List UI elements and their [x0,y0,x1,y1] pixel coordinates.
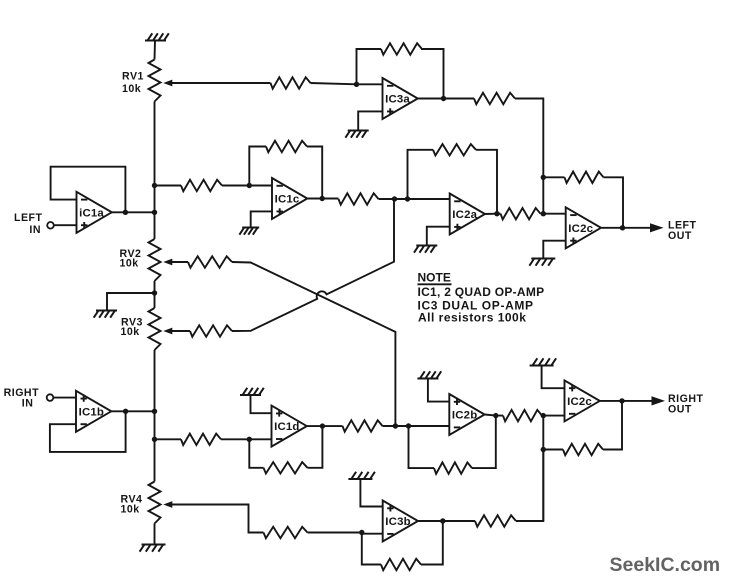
node left rail to IC1d resistor [152,437,157,442]
svg-text:iC1a: iC1a [79,207,104,219]
svg-text:10k: 10k [121,326,140,338]
arrow LEFT OUT [650,223,664,232]
resistor RV3 wiper crossfeed [190,325,232,336]
resistor IC2c-right feedback [563,444,603,455]
resistor IC3b feedback [381,559,421,570]
wire IC1d feedback left+bottom [249,439,263,468]
node IC3b inverting input [359,530,364,535]
resistor RV4 wiper to IC3b [264,527,308,538]
node IC2b output [493,413,498,418]
svg-text:10k: 10k [120,258,139,270]
node IC1a output on rail [152,210,157,215]
label RV1 [122,71,144,83]
wire IC2c-right feedback down [542,416,544,521]
wire IC1c output [308,198,339,200]
wire IC1c - node to input [249,185,272,187]
node IC3a output [441,96,446,101]
wire resistor down right rail to IC2c - node [515,99,543,214]
op-amp IC1c [272,178,307,219]
node IC1d inverting input [247,437,252,442]
label RIGHT IN line1 [4,387,39,399]
wire resistor to IC2c-right - node [542,415,565,417]
potentiometer RV3 10k [149,308,161,350]
wire mid-rail to ground G5 [107,293,155,311]
svg-text:IC1b: IC1b [79,406,104,418]
node IC1c output [320,196,325,201]
node mid-rail ground junction [152,290,157,295]
terminal LEFT IN [47,222,54,229]
svg-text:IC1c: IC1c [275,194,300,206]
note line 2 [418,298,534,312]
wire RV1 bottom rail down to RV2 [154,102,156,240]
svg-text:IC3a: IC3a [385,94,410,106]
node LEFT OUT feedback junction [620,225,625,230]
node IC1d output [320,423,325,428]
wire IC3b feedback left+bottom [362,533,381,565]
label LEFT OUT line1 [668,220,697,232]
wire IC1c feedback left+top [249,147,266,186]
wire IC3a feedback left+top [357,49,382,84]
ground G4 (IC1c + input) [239,228,259,235]
resistor IC2b feedback [434,462,472,473]
op-amp IC2c (left) [566,207,601,248]
resistor IC2c-left feedback [565,172,604,183]
label LEFT OUT line2 [668,230,692,242]
svg-text:RV1: RV1 [122,71,144,83]
op-amp IC2b [449,394,484,435]
svg-text:LEFT: LEFT [14,212,43,224]
wire rail resistor to IC1c - node [155,185,250,187]
wire IC1b output to rail [111,410,154,412]
wire IC2c-right + input to ground [542,366,565,389]
ground G10 (IC2c-right + input) [530,358,557,365]
ground G5 (between RV2 and RV3) [94,311,117,318]
label LEFT IN line2 [29,224,41,236]
wire IC1c + input to ground [251,211,272,227]
ground G1 (top of RV1) [145,33,169,40]
wire RV4 wiper to IC3b - resistor [171,505,264,533]
svg-text:IC2b: IC2b [452,410,477,422]
terminal RIGHT IN [47,394,54,401]
svg-text:NOTE: NOTE [418,271,451,285]
wire IC2a output to resistor [485,213,501,215]
wire IC2b output to resistor [485,415,503,416]
wire IC1a output to rail [112,211,155,213]
arrow RIGHT OUT [652,396,666,405]
note line 3 [418,310,526,324]
label RV3 [121,317,143,329]
wire IC3b - node to input [362,533,383,534]
potentiometer RV4 10k [149,482,161,524]
node crossfeed joins IC2b input [393,423,398,428]
note title [418,271,451,285]
resistor IC3a output to IC2c input rail [474,93,515,104]
svg-text:IC1, 2 QUAD OP-AMP: IC1, 2 QUAD OP-AMP [418,285,545,299]
op-amp IC3b [383,501,418,542]
wire RIGHT IN to IC1b + input [53,397,76,399]
node IC2a feedback junction [405,196,410,201]
wire IC2b + input to ground [428,379,449,402]
node IC1c inverting input [247,183,252,188]
label RIGHT OUT line1 [668,393,703,405]
node IC2b feedback junction [406,423,411,428]
node RIGHT OUT feedback junction [619,398,624,403]
resistor IC2a feedback [433,144,476,155]
node IC2a output [494,211,499,216]
label RIGHT IN line2 [22,397,34,409]
ground G3 (IC3a + input) [345,131,368,138]
svg-text:IN: IN [29,224,41,236]
resistor RV2 wiper crossfeed [188,256,232,267]
node left rail to IC1c resistor [152,183,157,188]
wire IC1a feedback loop [51,167,126,213]
svg-text:IC3b: IC3b [385,516,410,528]
wire resistor to IC3b - node [308,532,362,534]
wire resistor to IC2c - node [541,213,544,215]
wiper arrow RV3 [163,328,172,335]
wire resistor to IC3a - node [311,83,383,84]
potentiometer RV1 10k [149,60,161,102]
wire IC3b output to resistor [418,520,475,522]
wire IC1c feedback right side [307,147,322,199]
ground G9 (IC2b + input) [417,371,441,378]
op-amp IC2a [450,194,485,235]
wire RV3 bottom rail down to RV4 [154,350,156,482]
wire IC1d - node to input [249,438,271,440]
resistor IC1c feedback [266,141,307,152]
wire RV2 wiper to resistor [172,261,189,263]
wire crossfeed diagonal RV3 to IC2a rail (with hop) [232,199,394,331]
label RV2 value 10k [120,258,139,270]
wire feedback tap to resistor [543,176,564,178]
wire IC2a feedback left+top [408,150,434,199]
ground G2 (below RV4) [140,545,166,552]
wire IC2c-left output [601,227,650,229]
wire IC1d output [307,425,343,427]
wire IC3a output to resistor [418,98,474,100]
wire IC3a feedback right side [421,49,444,99]
wire crossfeed diagonal RV2 to IC2b rail [232,262,395,426]
svg-text:IN: IN [22,397,34,409]
ground G6 (IC2a + input) [414,246,437,253]
wire resistor up right rail to IC2c-right node [516,450,543,522]
label RV1 value 10k [122,83,141,95]
ground G11 (IC3b + input) [348,472,375,479]
wire IC2a feedback right side [476,150,497,214]
wire IC1b feedback loop [50,411,126,452]
resistor rail to IC1d inverting input [181,434,221,445]
wire RV1 wiper to resistor [171,82,271,84]
resistor IC1d feedback [264,462,308,473]
node IC3b output [440,518,445,523]
wiper arrow RV1 [163,80,172,87]
wire IC2c-right output [600,400,652,402]
potentiometer RV2 10k [149,239,161,281]
wire RV4 bottom to ground G2 [154,524,156,545]
label RV3 value 10k [121,326,140,338]
resistor IC2a output to IC2c [501,208,541,219]
wire IC2c-right feedback right side [603,401,622,450]
resistor IC3a feedback [381,43,422,54]
wire resistor to IC2a - input [379,198,450,200]
node IC1b output feedback junction [123,409,128,414]
node IC2c-right inverting input [541,413,546,418]
node IC3a inverting input [354,82,359,87]
wire IC3a + input to ground [358,111,382,130]
node IC2c-right feedback junction [541,447,546,452]
wire IC3b + input to ground [360,479,382,507]
label RV4 [121,494,143,506]
wire resistor to IC2b - input [383,425,450,427]
wire ground G1 to RV1 top [154,41,157,60]
wire IC1d + input to ground [251,395,272,413]
wire LEFT IN to IC1a + input [54,224,77,226]
node crossfeed joins IC2a input [392,196,397,201]
svg-text:IC2a: IC2a [452,209,477,221]
note title underline [418,283,452,285]
svg-text:IC2c: IC2c [568,223,593,235]
resistor IC2b output to IC2c right [503,410,542,421]
svg-text:IC2c: IC2c [567,396,592,408]
op-amp IC3a [383,78,418,119]
wiper arrow RV4 [163,501,172,508]
node IC2c-left feedback tap [541,175,546,180]
label RV4 value 10k [121,504,140,516]
op-amp IC1d [272,406,307,447]
wire - node to IC2c input [543,213,565,215]
node IC1a output feedback junction [123,210,128,215]
svg-text:IC1d: IC1d [274,421,299,433]
resistor IC1d output to IC2b [343,420,383,431]
node IC2c-left inverting input [541,211,546,216]
svg-text:10k: 10k [122,83,141,95]
resistor IC1c output to IC2a [339,193,379,204]
wire RV2 bottom to RV3 top [154,281,156,308]
svg-text:All resistors 100k: All resistors 100k [418,310,526,324]
wire IC2a + input to ground [427,227,450,246]
wiper arrow RV2 [163,259,172,266]
wire IC2c-left feedback right side [604,177,624,228]
label RIGHT OUT line2 [668,404,692,416]
wire rail resistor to IC1d - node [155,438,250,440]
ground G8 (IC1d + input) [240,388,264,395]
label RV2 [120,248,142,260]
resistor rail to IC1c inverting input [181,180,222,191]
wire feedback node to resistor [543,449,563,451]
wire IC3b feedback right side [421,521,443,565]
wire RV3 wiper to resistor [172,330,191,332]
wire IC2c-left + input to ground [543,241,565,259]
resistor IC3b output to right rail [475,515,516,526]
op-amp IC1b [76,391,111,432]
svg-text:10k: 10k [121,504,140,516]
ground G7 (IC2c-left + input) [529,259,555,266]
op-amp IC2c (right) [565,380,600,421]
wire IC1d feedback right side [308,426,323,468]
wire IC2b feedback right side [472,416,496,469]
svg-text:SeekIC.com: SeekIC.com [610,554,721,576]
watermark SeekIC.com [610,554,721,576]
label LEFT IN line1 [14,212,43,224]
op-amp IC1a [77,192,112,233]
svg-text:OUT: OUT [668,404,692,416]
svg-text:OUT: OUT [668,230,692,242]
note line 1 [418,285,545,299]
node IC1b output on rail [152,409,157,414]
resistor RV1 wiper to IC3a [271,77,311,88]
wire IC2b feedback left+bottom [409,426,435,468]
